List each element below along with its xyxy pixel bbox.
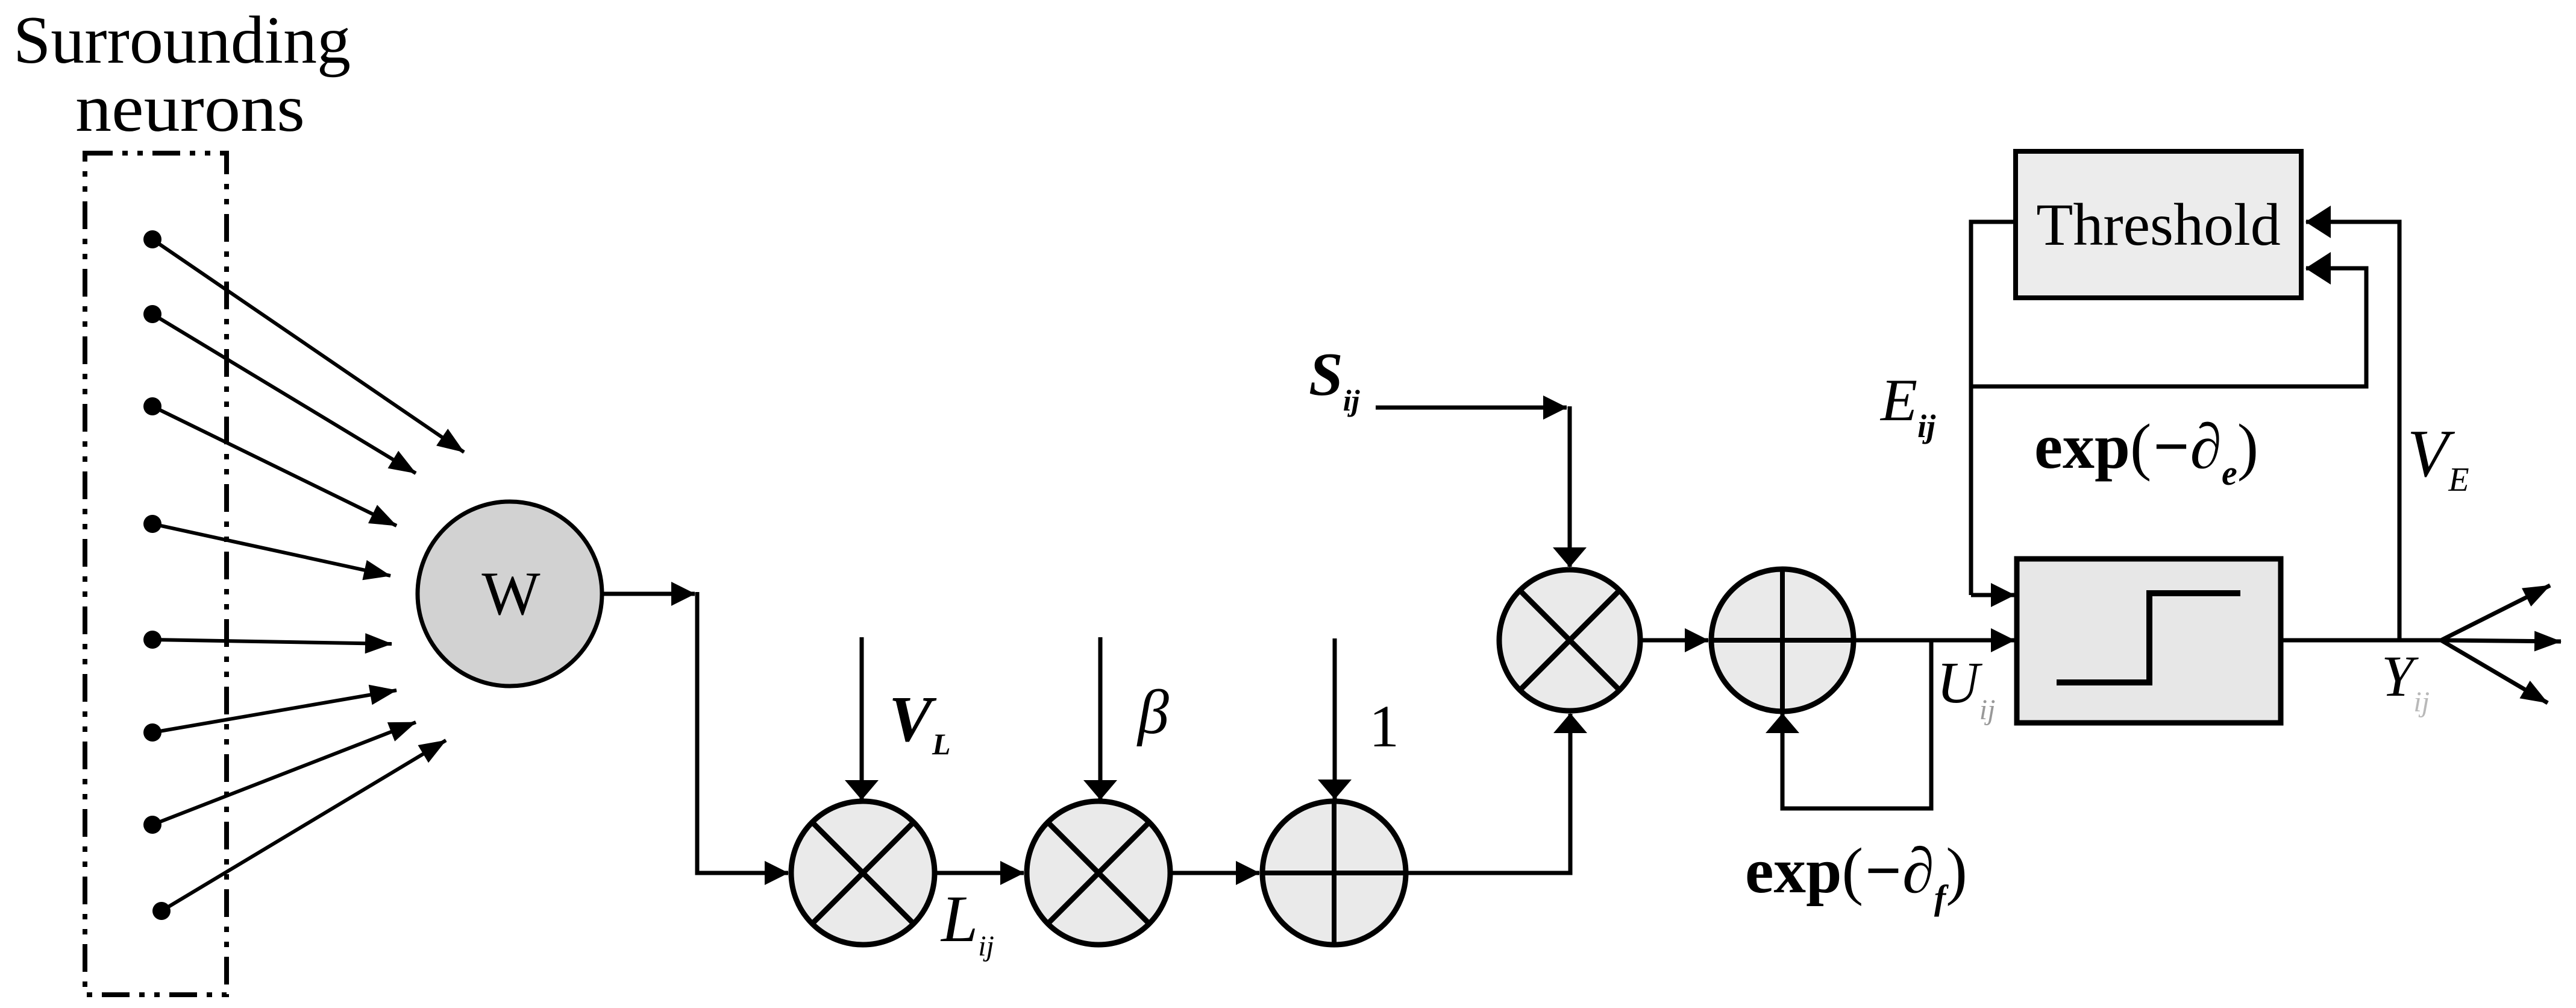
neuron dot 6 [143,723,161,742]
svg-text:neurons: neurons [75,71,305,146]
wire: V_E from output line up into threshold [2306,222,2399,640]
svg-text:W: W [481,559,541,628]
input arrow V_L [860,637,864,799]
neuron dot 5 [143,631,161,649]
synapse arrow 3 [152,406,396,526]
input arrow beta [1098,637,1103,799]
synapse arrow 7 [152,722,416,825]
svg-text:exp(−∂f): exp(−∂f) [1745,836,1967,917]
input arrow 1 [1333,638,1337,799]
wire: W output with arrow at corner [602,592,695,596]
wire: M3 to adder A2 [1640,638,1708,643]
wire: S_ij input horizontal [1376,406,1567,410]
multiplier M3 (x S_ij) [1499,570,1640,711]
svg-text:Surrounding: Surrounding [13,3,351,78]
wire: E_ij from threshold down to step box [1971,222,2016,595]
wire: step box output [2281,638,2441,643]
threshold box [2016,151,2301,298]
neuron dot 7 [143,816,161,834]
synapse arrow 4 [152,524,390,576]
dashed box: surrounding neurons region [85,153,227,995]
neuron dot 3 [143,397,161,415]
synapse arrow 1 [152,239,464,452]
output arrow down-right [2441,640,2548,703]
multiplier M2 (x beta) [1027,801,1170,945]
synapse arrow 2 [152,314,416,473]
neuron dot 8 [152,902,171,920]
step symbol [2057,593,2240,682]
neuron dot 1 [143,230,161,248]
wire: S_ij input down into M3 [1568,406,1572,567]
weight node W [418,502,602,686]
wire: A2 to step box [1854,638,2014,643]
wire: A1 right then up into multiplier M3 [1405,714,1570,873]
neuron dot 4 [143,515,161,533]
wire: feedback exp(-df) loop [1782,640,1931,808]
input arrow E into step box [1971,593,2014,597]
adder A1 (+1) [1262,801,1406,945]
svg-text:1: 1 [1369,693,1399,760]
wire: M1 to M2 [935,871,1024,875]
synapse arrow 8 [161,740,446,911]
multiplier M1 (x V_L) [791,801,935,945]
wire: down and right into first multiplier [697,592,788,873]
step function box [2017,559,2281,723]
synapse arrow 5 [152,640,392,644]
wire: threshold decay loop exp(-d_e) [1971,268,2366,386]
output arrow right [2441,640,2561,641]
svg-text:Threshold: Threshold [2036,191,2280,258]
output arrow up-right [2441,585,2550,640]
adder A2 [1711,569,1854,711]
synapse arrow 6 [152,690,396,732]
neuron dot 2 [143,305,161,323]
wire: M2 to adder A1 [1170,871,1259,875]
svg-text:β: β [1136,678,1169,747]
label: Surrounding neurons [13,3,351,146]
